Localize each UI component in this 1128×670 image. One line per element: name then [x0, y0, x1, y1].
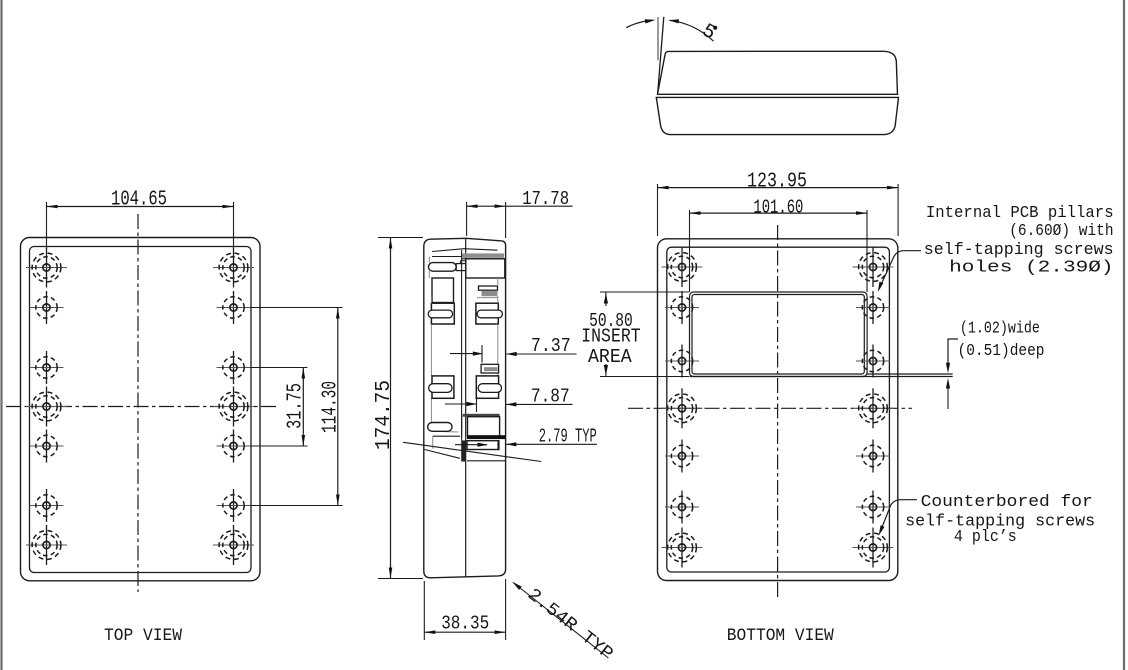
right capsule slot D	[478, 384, 501, 393]
diagonal parting leader	[403, 442, 541, 461]
svg-text:2.54R TYP: 2.54R TYP	[523, 585, 616, 665]
side view inner vertical (lid wall)	[461, 250, 463, 441]
svg-text:7.87: 7.87	[531, 386, 570, 408]
lid skirt slope	[425, 450, 460, 459]
fin A connector	[456, 264, 466, 271]
screw hole top view left row7	[26, 525, 67, 565]
svg-text:123.95: 123.95	[747, 171, 807, 194]
right rib bar B	[479, 286, 498, 290]
screw hole bottom view right row2	[856, 291, 890, 324]
5deg right arc	[670, 20, 714, 41]
dim 101.60 line	[690, 212, 868, 214]
right wall segment	[497, 296, 499, 303]
dim 123.95 right extension	[897, 184, 899, 236]
screw hole bottom view left row4	[662, 388, 703, 428]
recess bottom line	[462, 258, 505, 260]
left wall segment c	[430, 398, 432, 422]
dim 174.75 top extension	[378, 237, 423, 239]
screw hole bottom view right row4	[853, 388, 894, 428]
lid crown inner line	[432, 249, 498, 252]
left wall segment	[430, 295, 432, 303]
right fin block D	[476, 376, 498, 398]
dim 7.87 leader	[506, 403, 573, 405]
bottom view outer wall	[658, 239, 898, 581]
dim 174.75 bottom extension	[378, 578, 423, 580]
screw hole bottom view right row7	[853, 528, 894, 568]
2.79 slot rect	[467, 441, 499, 450]
gray line under capsule E	[433, 430, 459, 433]
screw hole top view right row4	[213, 387, 254, 427]
dim 101.60 right extension	[866, 210, 868, 292]
dim 17.78 line	[467, 205, 506, 207]
screw hole top view left row1	[26, 248, 67, 288]
dim 114.30 top extension	[250, 307, 343, 309]
deep dim bracket	[948, 339, 958, 366]
svg-text:17.78: 17.78	[522, 188, 569, 210]
lid step vertical	[432, 436, 434, 449]
5deg left arc	[626, 20, 652, 28]
dim 31.75 top extension	[250, 367, 308, 369]
left capsule fin E	[428, 423, 452, 432]
dim 50.80 arrows	[605, 292, 607, 306]
leader internal PCB pillars	[880, 251, 922, 288]
svg-text:Counterbored for: Counterbored for	[921, 492, 1093, 511]
svg-text:2.79 TYP: 2.79 TYP	[539, 425, 597, 447]
right wall segment 2	[497, 324, 499, 364]
screw hole bottom view left row6	[665, 491, 699, 524]
groove lines extending right	[690, 376, 953, 378]
dim 2.79 inner arrow	[455, 444, 487, 446]
right rib bar D	[481, 364, 499, 373]
lid fin capsule A	[429, 263, 457, 272]
svg-text:5: 5	[698, 20, 720, 46]
svg-text:self-tapping screws: self-tapping screws	[924, 240, 1114, 259]
svg-text:TOP VIEW: TOP VIEW	[104, 626, 182, 646]
dim 114.30 line	[337, 308, 339, 506]
gray recess bar top right	[462, 253, 504, 257]
dim 7.87 inner arrow	[445, 403, 476, 405]
screw hole bottom view right row1	[853, 247, 894, 287]
dark bar above pocket	[463, 414, 500, 417]
dim 17.78 left extension	[466, 202, 468, 236]
svg-text:174.75: 174.75	[373, 380, 396, 450]
right rib gray bar D	[484, 367, 498, 371]
svg-text:BOTTOM VIEW: BOTTOM VIEW	[727, 626, 834, 646]
svg-text:holes (2.39Ø): holes (2.39Ø)	[949, 258, 1114, 277]
leader 2.54R TYP	[513, 583, 608, 659]
svg-text:7.37: 7.37	[531, 335, 571, 357]
svg-text:Internal PCB pillars: Internal PCB pillars	[926, 203, 1114, 222]
left wall segment b	[428, 271, 430, 278]
dim 2.79 tick	[497, 440, 499, 450]
dim 7.87 tick	[476, 395, 478, 412]
bottom view inner wall	[667, 247, 890, 572]
top view vertical centerline	[137, 214, 139, 592]
dim 17.78 leader	[506, 205, 573, 207]
right capsule slot C	[477, 310, 502, 318]
top view inner wall	[30, 247, 252, 573]
interface dark fill	[461, 441, 465, 462]
lid profile	[658, 51, 898, 94]
base floor line	[467, 460, 505, 462]
top view outer wall	[21, 238, 261, 581]
dim 31.75 bottom extension	[250, 445, 308, 447]
page left border	[0, 0, 2, 670]
side view lid/base interface line	[465, 238, 467, 576]
small step near pocket	[460, 261, 465, 264]
svg-text:(1.02)wide: (1.02)wide	[960, 319, 1040, 338]
screw hole top view right row1	[213, 248, 254, 288]
bottom view vertical centerline	[777, 225, 779, 600]
dim 123.95 left extension	[657, 184, 659, 236]
svg-text:114.30: 114.30	[320, 381, 343, 433]
screw hole top view right row7	[213, 525, 254, 565]
deep dim lower arrow	[947, 383, 949, 409]
bottom view horizontal centerline	[628, 407, 912, 409]
dim 101.60 left extension	[689, 210, 691, 292]
5 degree annotation vertical reference	[657, 17, 659, 60]
dim 7.37 inner arrow	[450, 353, 483, 355]
svg-text:(0.51)deep: (0.51)deep	[958, 341, 1045, 360]
screw hole top view left row4	[26, 387, 67, 427]
left wall segment 2	[430, 324, 432, 376]
svg-text:(6.60Ø) with: (6.60Ø) with	[1009, 221, 1113, 240]
leader counterbored	[881, 500, 918, 531]
left capsule slot C	[428, 310, 452, 318]
right rib under line	[477, 297, 498, 299]
svg-text:104.65: 104.65	[111, 189, 167, 212]
right wall segment a	[497, 278, 499, 286]
dim 114.30 bottom extension	[250, 505, 343, 507]
screw hole bottom view left row2	[665, 291, 699, 324]
base profile	[656, 97, 898, 134]
right rib gray bar B	[482, 291, 498, 296]
svg-text:AREA: AREA	[588, 346, 632, 368]
screw hole bottom view right row3	[856, 345, 890, 378]
screw hole top view left row2	[30, 291, 64, 324]
lower pocket rect	[468, 417, 500, 436]
lid rib block B	[432, 278, 454, 303]
svg-text:31.75: 31.75	[285, 383, 308, 429]
screw hole bottom view right row6	[856, 491, 890, 524]
page right border	[1123, 0, 1125, 670]
screw hole top view left row5	[30, 430, 64, 463]
screw hole bottom view left row3	[665, 345, 699, 378]
dim 50.80 top extension	[600, 291, 689, 293]
screw hole top view left row3	[30, 351, 64, 384]
dim 174.75 line	[390, 238, 392, 579]
screw hole bottom view right row5	[856, 440, 890, 473]
svg-text:38.35: 38.35	[441, 613, 489, 635]
screw hole top view right row5	[217, 430, 251, 463]
dim 104.65 line	[47, 206, 234, 208]
lid crown lower line	[432, 256, 462, 258]
top view horizontal centerline	[6, 406, 277, 408]
right wall segment b	[497, 373, 499, 376]
screw hole top view right row6	[217, 489, 251, 522]
left fin block C	[431, 303, 454, 324]
dim 104.65 right extension	[233, 202, 235, 249]
dim 7.37 tick	[481, 345, 483, 363]
screw hole bottom view left row7	[662, 528, 703, 568]
dim 7.37 leader	[507, 353, 577, 355]
insert area outer rect	[690, 292, 868, 377]
dim 38.35 left extension	[423, 581, 425, 640]
degree dot	[713, 26, 717, 30]
dim 38.35 right extension	[505, 579, 507, 640]
left fin block D	[432, 376, 454, 398]
dim 38.35 line	[424, 631, 505, 633]
side view outer profile	[424, 238, 506, 578]
screw hole bottom view left row1	[662, 247, 703, 287]
left capsule slot D	[429, 384, 452, 393]
dim 50.80 bottom extension	[600, 376, 689, 378]
dim 17.78 right extension	[505, 202, 507, 238]
top right pocket rect	[466, 259, 505, 278]
left wall segment a	[428, 257, 430, 263]
dim 2.79 leader	[506, 443, 597, 445]
screw hole top view left row6	[30, 489, 64, 522]
screw hole bottom view left row5	[665, 440, 699, 473]
svg-text:INSERT: INSERT	[581, 326, 640, 348]
narrow channel left line	[461, 416, 463, 437]
dim 123.95 line	[658, 187, 899, 189]
dim 31.75 line	[302, 368, 304, 447]
2.79 rib bar	[467, 435, 505, 439]
svg-text:4 plc’s: 4 plc’s	[954, 527, 1017, 546]
dim 104.65 left extension	[46, 202, 48, 249]
lid step line	[433, 435, 460, 437]
right fin block C	[476, 303, 498, 324]
5 degree annotation draft edge extension	[658, 17, 664, 93]
screw hole top view right row2	[217, 291, 251, 324]
screw hole top view right row3	[217, 351, 251, 384]
insert area inner rect	[692, 295, 864, 375]
svg-text:101.60: 101.60	[753, 197, 803, 219]
